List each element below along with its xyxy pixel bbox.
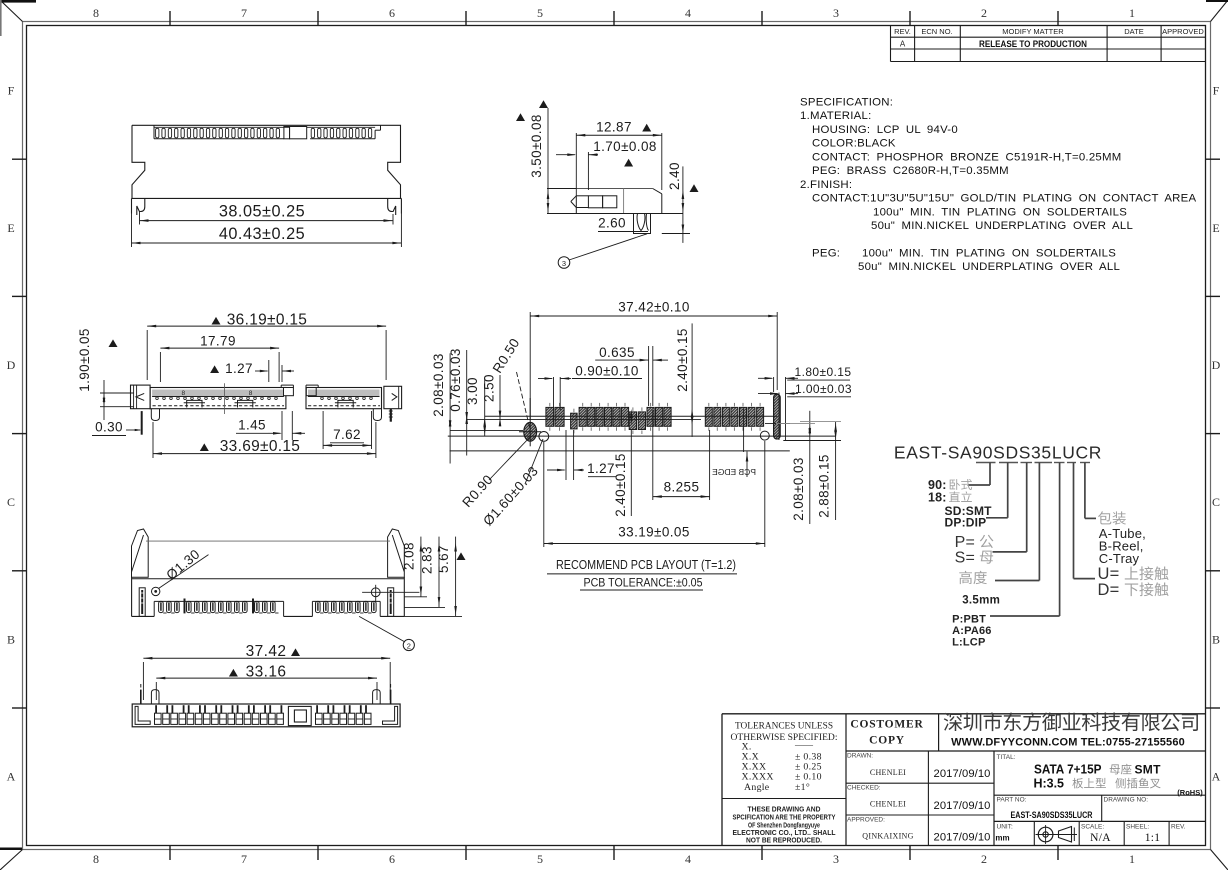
top view pin number 8 marks xyxy=(181,390,252,397)
svg-text:DATE: DATE xyxy=(1124,27,1143,36)
svg-text:1.27: 1.27 xyxy=(225,361,253,376)
svg-text:1.00±0.03: 1.00±0.03 xyxy=(795,382,852,396)
bottom view contacts left group xyxy=(155,705,284,724)
svg-text:5: 5 xyxy=(537,6,543,20)
svg-text:——: —— xyxy=(794,740,814,750)
third angle projection symbol xyxy=(1036,825,1078,844)
svg-text:100u" MIN. TIN PLATING ON SOLD: 100u" MIN. TIN PLATING ON SOLDERTAILS xyxy=(862,247,1116,259)
unit cell xyxy=(995,824,1013,843)
svg-text:1: 1 xyxy=(1129,6,1135,20)
part no cell xyxy=(997,797,1093,821)
svg-text:C: C xyxy=(1212,495,1220,509)
bottom view right hold-down xyxy=(383,706,398,724)
svg-text:1.45: 1.45 xyxy=(238,418,266,433)
dimension 1.80±0.15 xyxy=(758,365,851,440)
svg-text:REV.: REV. xyxy=(1171,824,1186,831)
top view peg pin right xyxy=(389,409,393,422)
top view centerline xyxy=(224,383,226,414)
pcb notch circle right xyxy=(760,431,769,440)
svg-text:CONTACT: PHOSPHOR BRONZE C5191: CONTACT: PHOSPHOR BRONZE C5191R-H,T=0.25… xyxy=(812,151,1122,163)
sheet cell xyxy=(1126,824,1160,844)
svg-text:WWW.DFYYCONN.COM TEL:0755-271: WWW.DFYYCONN.COM TEL:0755-27155560 xyxy=(951,737,1185,749)
svg-text:CHENLEI: CHENLEI xyxy=(870,768,906,777)
svg-text:C-Tray: C-Tray xyxy=(1099,551,1140,566)
top view solder tail left xyxy=(141,411,143,435)
drawn row xyxy=(847,753,991,781)
bottom view left post xyxy=(151,690,159,704)
dimension 1.70±0.08 xyxy=(556,139,657,190)
label SD SMT DP DIP xyxy=(945,504,993,530)
svg-text:SHEEL:: SHEEL: xyxy=(1126,824,1149,831)
top view left section body xyxy=(150,385,293,409)
svg-text:2: 2 xyxy=(981,852,987,866)
svg-text:2017/09/10: 2017/09/10 xyxy=(934,832,991,844)
svg-text:40.43±0.25: 40.43±0.25 xyxy=(219,225,305,243)
top view right end cap xyxy=(384,386,402,408)
dimension 0.30 xyxy=(92,412,145,436)
svg-text:B: B xyxy=(1212,632,1220,646)
svg-text:3: 3 xyxy=(833,6,839,20)
revision table headers xyxy=(894,27,1204,36)
svg-text:PCB TOLERANCE:±0.05: PCB TOLERANCE:±0.05 xyxy=(584,578,703,590)
svg-text:NOT BE REPRODUCED.: NOT BE REPRODUCED. xyxy=(746,836,822,845)
dimension 0.635 xyxy=(595,345,668,406)
svg-text:F: F xyxy=(8,84,15,98)
svg-text:7: 7 xyxy=(241,6,247,20)
top view right section body xyxy=(306,385,382,409)
svg-text:A: A xyxy=(900,39,906,48)
svg-text:APPROVED: APPROVED xyxy=(1162,27,1204,36)
svg-text:3.00: 3.00 xyxy=(465,377,480,405)
dimension 2.40±0.15 pcb upper xyxy=(675,323,693,437)
pcb pads left group xyxy=(546,403,671,434)
front view contact shelf xyxy=(154,125,381,139)
svg-text:3.50±0.08: 3.50±0.08 xyxy=(529,114,544,178)
svg-text:33.19±0.05: 33.19±0.05 xyxy=(618,525,689,540)
top view left cap arrow mark xyxy=(136,393,144,400)
bottom view right post xyxy=(373,690,381,704)
svg-text:38.05±0.25: 38.05±0.25 xyxy=(219,203,305,221)
note pcb tolerance xyxy=(580,578,703,591)
svg-text:37.42±0.10: 37.42±0.10 xyxy=(618,300,689,315)
svg-text:PCB EDGE: PCB EDGE xyxy=(712,467,756,477)
svg-text:PEG:: PEG: xyxy=(812,247,840,259)
dimension 2.40±0.15 pcb lower xyxy=(613,409,633,517)
dimension 1.90±0.05 vertical left xyxy=(77,328,134,420)
svg-text:TOLERANCES UNLESS: TOLERANCES UNLESS xyxy=(735,721,833,732)
balloon 3 leader xyxy=(558,234,647,269)
property note text xyxy=(733,805,836,845)
svg-text:mm: mm xyxy=(995,834,1009,843)
svg-text:Angle: Angle xyxy=(744,782,770,793)
svg-text:1.MATERIAL:: 1.MATERIAL: xyxy=(800,110,872,122)
svg-text:A:PA66: A:PA66 xyxy=(952,625,992,637)
label P PBT A PA66 L LCP xyxy=(952,614,992,649)
bottom view left edge pin xyxy=(140,684,142,704)
title line 2 H 3.5 xyxy=(1034,776,1161,791)
svg-text:0.76±0.03: 0.76±0.03 xyxy=(448,348,463,412)
label diameter 1.30 with leader xyxy=(152,546,209,595)
svg-text:1.90±0.05: 1.90±0.05 xyxy=(77,328,92,392)
pcb edge label mirrored xyxy=(712,452,756,478)
svg-text:8: 8 xyxy=(93,6,99,20)
front view right foot xyxy=(388,198,402,215)
zone letters left xyxy=(7,84,16,784)
svg-text:8: 8 xyxy=(249,390,253,397)
rear view left pin strip xyxy=(139,588,145,617)
label R0.50 with leader xyxy=(490,336,530,427)
pcb construction line pad centers xyxy=(485,415,778,417)
dimension 36.19±0.15 xyxy=(147,312,386,381)
svg-text:APPROVED:: APPROVED: xyxy=(847,817,885,824)
svg-text:D: D xyxy=(1212,358,1221,372)
svg-text:PART NO:: PART NO: xyxy=(997,797,1027,804)
datum triangle near 1.90 dim xyxy=(109,339,118,347)
svg-text:H:3.5: H:3.5 xyxy=(1034,776,1065,791)
dimension 17.79 xyxy=(160,334,279,382)
svg-text:7: 7 xyxy=(241,852,247,866)
rear view body outline xyxy=(132,577,405,616)
part number leader 35 xyxy=(995,463,1039,581)
top view right section contact dimples xyxy=(321,397,373,400)
svg-text:COLOR:BLACK: COLOR:BLACK xyxy=(812,138,896,150)
svg-text:1: 1 xyxy=(1129,852,1135,866)
top view left section latch tabs xyxy=(184,400,256,407)
part number leader 90 xyxy=(968,463,991,486)
pcb edge line xyxy=(450,450,790,452)
dimension 2.88±0.15 pcb right xyxy=(783,422,841,520)
svg-text:CONTACT:1U"3U"5U"15U" GOLD/TIN: CONTACT:1U"3U"5U"15U" GOLD/TIN PLATING O… xyxy=(812,193,1196,205)
svg-text:DRAWING NO:: DRAWING NO: xyxy=(1104,797,1149,804)
dimension 37.42±0.10 pcb xyxy=(530,300,777,421)
front view housing outline xyxy=(132,125,401,198)
svg-text:2.08±0.03: 2.08±0.03 xyxy=(431,353,446,417)
part number leader L xyxy=(990,463,1060,617)
svg-text:4: 4 xyxy=(685,852,691,866)
svg-text:4: 4 xyxy=(685,6,691,20)
front view key slot xyxy=(284,127,307,139)
svg-text:C: C xyxy=(7,495,15,509)
svg-text:B: B xyxy=(7,632,15,646)
label height 3.5mm xyxy=(959,571,1000,607)
svg-text:P=: P= xyxy=(955,534,975,551)
svg-text:RECOMMEND PCB LAYOUT (T=1.2): RECOMMEND PCB LAYOUT (T=1.2) xyxy=(556,558,736,572)
svg-text:PEG: BRASS C2680R-H,T=0.35MM: PEG: BRASS C2680R-H,T=0.35MM xyxy=(812,165,1009,177)
dimension 33.19±0.05 xyxy=(544,441,765,547)
svg-text:8: 8 xyxy=(93,852,99,866)
label 90 horizontal 18 vertical xyxy=(928,478,972,505)
svg-text:SMT: SMT xyxy=(1135,763,1162,777)
bottom view contacts right group xyxy=(316,705,372,724)
svg-text:2017/09/10: 2017/09/10 xyxy=(934,800,991,812)
part number leader SD xyxy=(986,463,1008,518)
dimension 1.00±0.03 xyxy=(758,382,852,440)
svg-text:E: E xyxy=(7,221,14,235)
rear view teeth right group xyxy=(316,601,377,613)
svg-text:EAST-SA90SDS35LUCR: EAST-SA90SDS35LUCR xyxy=(894,443,1102,463)
svg-text:L:LCP: L:LCP xyxy=(952,637,985,649)
svg-text:8: 8 xyxy=(181,390,185,397)
svg-text:1.80±0.15: 1.80±0.15 xyxy=(795,365,852,379)
rear view teeth left group xyxy=(159,599,279,614)
label P male S female xyxy=(955,534,994,567)
dimension 12.87 xyxy=(576,119,662,196)
svg-text:±1°: ±1° xyxy=(795,782,810,793)
dimension 0.90±0.10 xyxy=(538,364,642,411)
svg-text:CHENLEI: CHENLEI xyxy=(870,800,906,809)
svg-text:P:PBT: P:PBT xyxy=(952,614,986,626)
bottom view center key xyxy=(288,706,311,725)
svg-text:X.XXX: X.XXX xyxy=(742,772,774,783)
svg-text:QINKAIXING: QINKAIXING xyxy=(862,832,913,841)
front view contact teeth right segment xyxy=(311,128,371,138)
dimension 33.16 bottom view xyxy=(156,664,377,701)
top view right section dashed bottom xyxy=(308,405,380,407)
pcb slot pad right xyxy=(765,394,790,439)
svg-text:2: 2 xyxy=(981,6,987,20)
pcb right pads crossing line xyxy=(743,409,745,452)
svg-text:UNIT:: UNIT: xyxy=(997,824,1013,831)
dimension 0.76±0.03 pcb left xyxy=(448,348,468,455)
front view contact teeth left segment xyxy=(156,128,280,138)
zone numbers top xyxy=(93,6,1135,20)
dimension 2.50 pcb left xyxy=(482,374,502,426)
svg-text:2.88±0.15: 2.88±0.15 xyxy=(817,454,832,518)
rear view right hole crosshair xyxy=(362,585,419,602)
svg-text:D: D xyxy=(7,358,16,372)
svg-text:A: A xyxy=(1212,770,1221,784)
svg-text:2.40±0.15: 2.40±0.15 xyxy=(613,453,628,517)
svg-text:A: A xyxy=(7,770,16,784)
top view mounting feet xyxy=(151,409,381,421)
datum triangle near 3.50 dim xyxy=(516,113,525,121)
svg-text:0.90±0.10: 0.90±0.10 xyxy=(575,364,639,379)
side view body outline xyxy=(571,189,662,214)
bottom view left hold-down xyxy=(135,706,150,724)
svg-text:± 0.10: ± 0.10 xyxy=(795,772,822,783)
customer copy cell xyxy=(850,719,923,747)
svg-text:3: 3 xyxy=(562,259,566,268)
svg-text:37.42: 37.42 xyxy=(246,643,287,660)
svg-text:1:1: 1:1 xyxy=(1145,832,1161,844)
side view solder peg below board xyxy=(634,214,651,234)
part number leader U xyxy=(1074,463,1096,579)
dimension 5.67 rear xyxy=(404,537,466,617)
svg-text:2.08±0.03: 2.08±0.03 xyxy=(791,457,806,521)
rear view top tie line xyxy=(146,540,390,542)
checked row xyxy=(847,785,991,812)
part number underline tick marks xyxy=(976,462,1090,464)
bottom view right edge pin xyxy=(390,684,392,704)
tolerance table text xyxy=(731,721,838,794)
svg-text:50u" MIN.NICKEL UNDERPLATING O: 50u" MIN.NICKEL UNDERPLATING OVER ALL xyxy=(871,220,1133,232)
approved row xyxy=(847,817,991,844)
svg-text:D=: D= xyxy=(1098,581,1120,599)
svg-text:0.635: 0.635 xyxy=(599,345,635,360)
svg-text:33.69±0.15: 33.69±0.15 xyxy=(220,438,300,455)
svg-text:6: 6 xyxy=(389,6,395,20)
svg-text:3.5mm: 3.5mm xyxy=(962,595,1000,607)
svg-text:DP:DIP: DP:DIP xyxy=(945,516,987,530)
label packing A-Tube B-Reel C-Tray xyxy=(1098,511,1146,566)
svg-text:3: 3 xyxy=(833,852,839,866)
pcb notch circle left xyxy=(539,432,549,442)
svg-text:S=: S= xyxy=(955,550,975,567)
revision table grid xyxy=(891,26,1206,62)
label diameter 1.60±0.03 with leader xyxy=(480,439,543,529)
rear view right wing xyxy=(388,529,405,577)
svg-text:50u" MIN.NICKEL UNDERPLATING O: 50u" MIN.NICKEL UNDERPLATING OVER ALL xyxy=(858,261,1120,273)
front view base line xyxy=(132,197,402,199)
svg-text:COPY: COPY xyxy=(869,735,905,747)
svg-text:ECN NO.: ECN NO. xyxy=(921,27,952,36)
svg-text:SPECIFICATION:: SPECIFICATION: xyxy=(800,97,893,109)
dimension 33.69±0.15 xyxy=(153,422,376,458)
dimension 37.42 bottom view xyxy=(143,643,390,700)
svg-text:REV.: REV. xyxy=(894,27,911,36)
svg-text:2.50: 2.50 xyxy=(482,374,497,402)
dimension 3.50±0.08 vertical xyxy=(529,100,683,213)
revision row A RELEASE TO PRODUCTION xyxy=(900,39,1087,50)
svg-text:(RoHS): (RoHS) xyxy=(1177,788,1203,797)
pcb mounting hole oval left xyxy=(519,398,541,446)
zone ticks left edge xyxy=(12,159,27,708)
title line 1 SATA 7+15P xyxy=(1034,763,1161,777)
company name chinese xyxy=(944,712,1198,731)
title block grid xyxy=(722,714,1206,846)
front view left foot xyxy=(132,198,145,215)
top view right section latch tab xyxy=(335,400,356,407)
svg-text:F: F xyxy=(1213,84,1220,98)
dimension 2.60 with underline xyxy=(598,216,648,232)
zone ticks right edge xyxy=(1206,159,1221,708)
part number leader C xyxy=(1085,463,1096,519)
svg-text:2.08: 2.08 xyxy=(402,542,417,570)
dimension 2.08±0.03 pcb right xyxy=(776,411,815,524)
svg-text:100u" MIN. TIN PLATING ON SOLD: 100u" MIN. TIN PLATING ON SOLDERTAILS xyxy=(873,206,1127,218)
dimension 38.05±0.25 xyxy=(140,203,394,225)
bottom view body outline xyxy=(132,704,400,727)
part number leader S xyxy=(993,463,1027,552)
svg-text:2.60: 2.60 xyxy=(598,216,626,231)
rear view left wing xyxy=(132,529,149,577)
svg-text:TITAL:: TITAL: xyxy=(997,754,1016,761)
svg-text:0.30: 0.30 xyxy=(95,420,123,435)
svg-text:8.255: 8.255 xyxy=(664,480,700,495)
dimension 3.00 pcb left xyxy=(465,377,486,436)
zone ticks bottom edge xyxy=(170,846,1058,861)
dimension 2.40 vertical right xyxy=(662,162,699,243)
svg-text:17.79: 17.79 xyxy=(200,334,236,349)
dimension 2.83 rear xyxy=(404,537,445,608)
label R0.90 with leader xyxy=(459,437,530,510)
svg-text:2.FINISH:: 2.FINISH: xyxy=(800,179,852,191)
top view body outline xyxy=(131,385,151,409)
svg-text:RELEASE TO PRODUCTION: RELEASE TO PRODUCTION xyxy=(979,39,1087,50)
svg-text:2: 2 xyxy=(407,642,411,651)
zone letters right xyxy=(1212,84,1221,784)
zone numbers bottom xyxy=(93,852,1135,866)
scale cell xyxy=(1081,824,1111,844)
top view left section contact dimples xyxy=(156,397,278,400)
svg-text:SCALE:: SCALE: xyxy=(1081,824,1104,831)
label U upper contact D lower contact xyxy=(1098,565,1169,599)
rear view right pin strip xyxy=(388,588,394,617)
svg-text:7.62: 7.62 xyxy=(333,427,361,442)
svg-text:CHECKED:: CHECKED: xyxy=(847,785,881,792)
dimension 1.45 xyxy=(236,411,305,440)
svg-text:E: E xyxy=(1212,221,1219,235)
dimension 1.27 pcb xyxy=(547,430,616,480)
svg-text:6: 6 xyxy=(389,852,395,866)
svg-text:2.83: 2.83 xyxy=(420,546,435,574)
dimension 2.08 rear xyxy=(402,537,428,597)
svg-text:SATA 7+15P: SATA 7+15P xyxy=(1034,763,1102,777)
svg-text:2.40: 2.40 xyxy=(667,162,682,190)
svg-text:5.67: 5.67 xyxy=(436,545,451,573)
side view contact slot rectangles xyxy=(588,196,616,208)
svg-text:DRAWN:: DRAWN: xyxy=(847,753,873,760)
svg-text:18:: 18: xyxy=(928,491,947,505)
pcb construction line secondary xyxy=(467,419,701,421)
svg-text:COSTOMER: COSTOMER xyxy=(850,719,923,731)
svg-text:MODIFY MATTER: MODIFY MATTER xyxy=(1002,27,1064,36)
pcb left reference line 2.08 xyxy=(450,429,523,431)
pcb pads right group xyxy=(705,403,763,431)
svg-text:1.70±0.08: 1.70±0.08 xyxy=(593,139,657,154)
svg-text:12.87: 12.87 xyxy=(596,119,632,134)
dimension 2.08±0.03 pcb left xyxy=(431,353,451,463)
top view left section dashed bottom xyxy=(153,405,285,407)
svg-text:5: 5 xyxy=(537,852,543,866)
svg-text:1.27: 1.27 xyxy=(587,461,615,476)
dimension 1.27 top view xyxy=(210,360,294,382)
balloon 2 leader xyxy=(359,616,414,650)
svg-text:HOUSING: LCP UL 94V-0: HOUSING: LCP UL 94V-0 xyxy=(812,124,958,136)
zone ticks top edge xyxy=(170,11,1058,26)
svg-text:2.40±0.15: 2.40±0.15 xyxy=(675,328,690,392)
svg-text:N/A: N/A xyxy=(1090,832,1111,844)
specification text xyxy=(800,97,1196,274)
dimension 7.62 xyxy=(323,411,371,449)
pcb body edge line xyxy=(448,435,836,437)
note recommend pcb layout xyxy=(547,558,737,574)
dimension 8.255 xyxy=(653,410,710,500)
dimension 40.43±0.25 xyxy=(132,214,402,248)
svg-text:EAST-SA90SDS35LUCR: EAST-SA90SDS35LUCR xyxy=(1011,810,1093,820)
svg-text:2017/09/10: 2017/09/10 xyxy=(934,768,991,780)
